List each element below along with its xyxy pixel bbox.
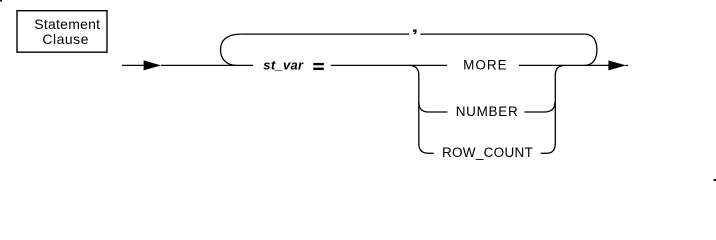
- svg-text:Statement: Statement: [34, 16, 100, 32]
- svg-text:NUMBER: NUMBER: [456, 104, 519, 119]
- svg-text:ROW_COUNT: ROW_COUNT: [442, 145, 533, 160]
- svg-text:st_var: st_var: [263, 57, 304, 72]
- svg-text:MORE: MORE: [463, 57, 508, 72]
- svg-text:Clause: Clause: [42, 31, 89, 47]
